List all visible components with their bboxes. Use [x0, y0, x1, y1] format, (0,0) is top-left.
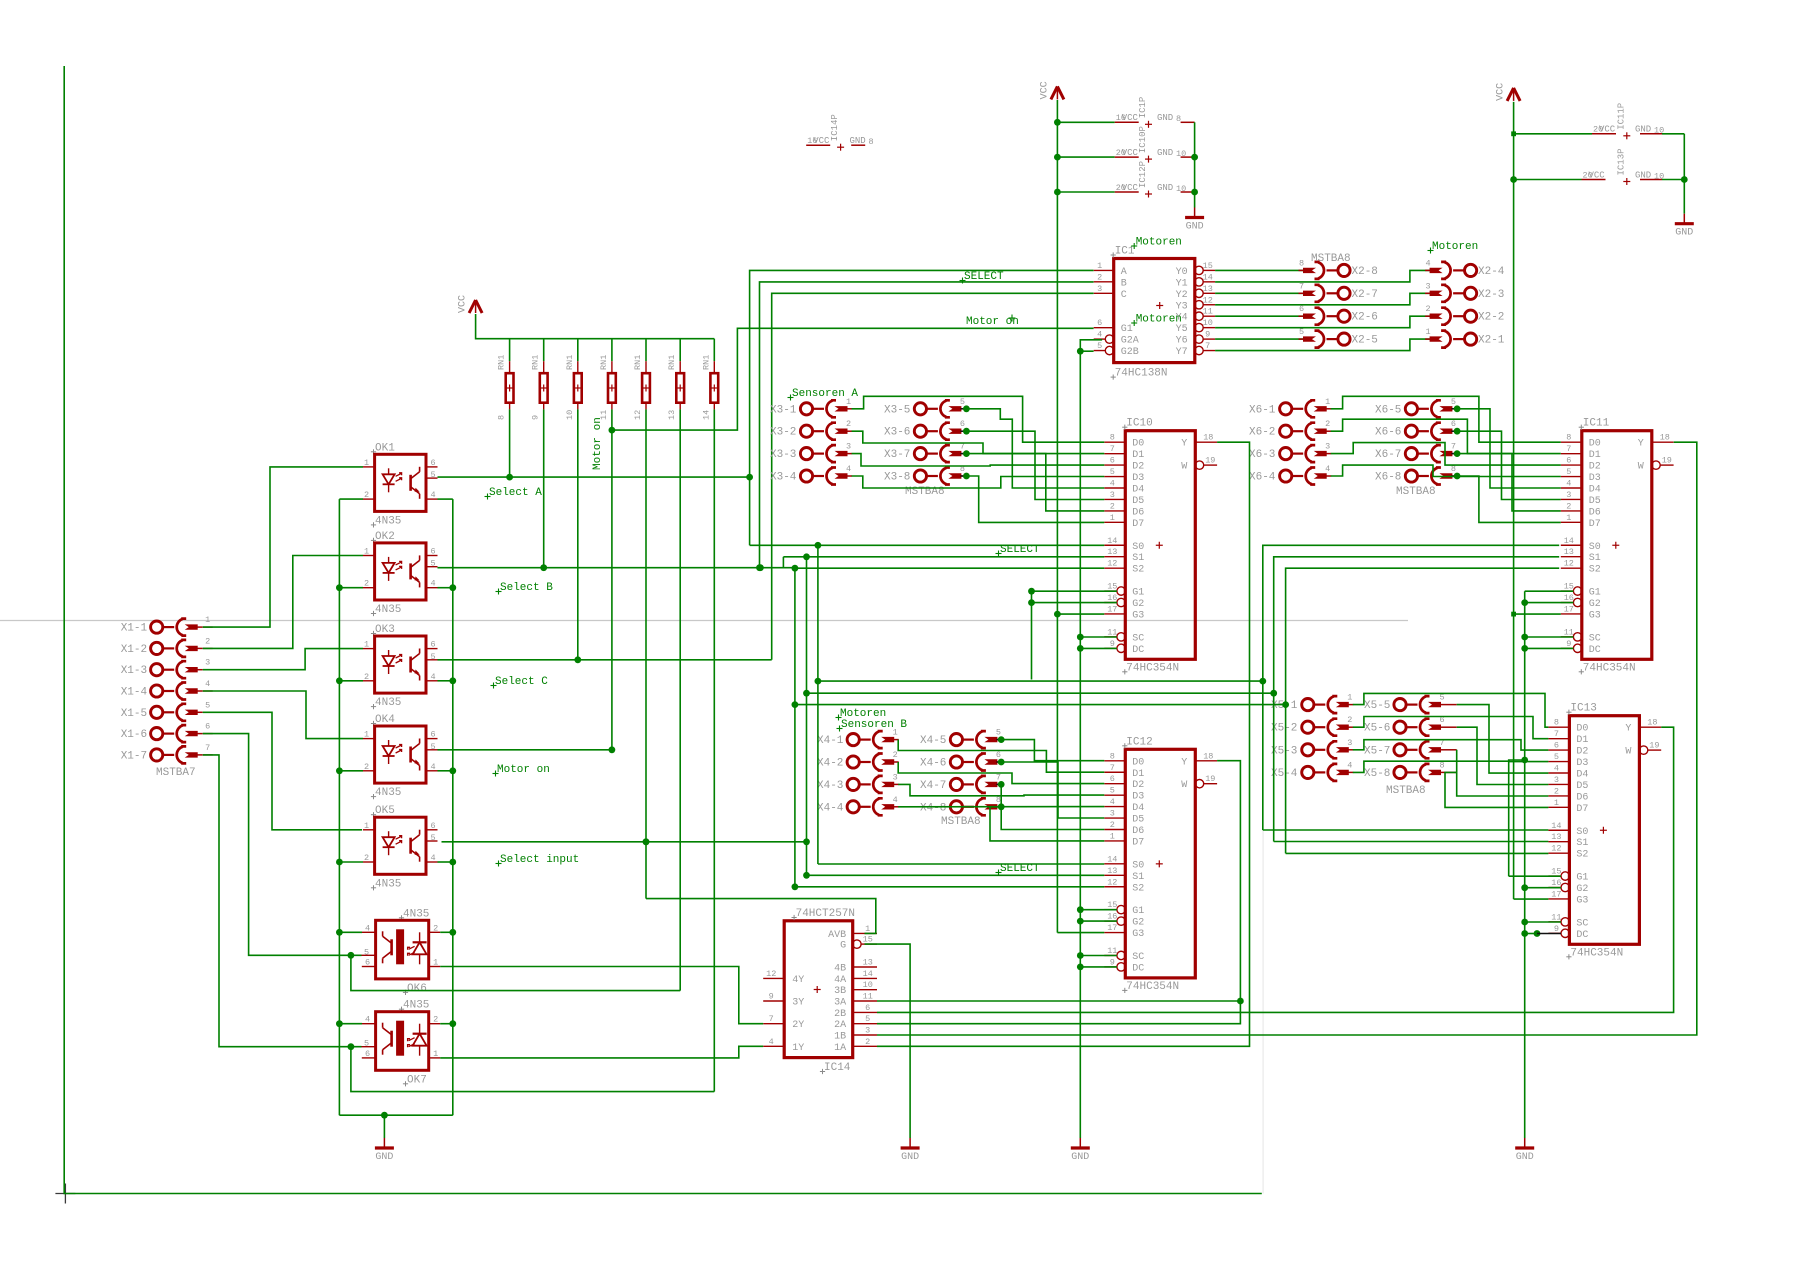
svg-text:G2A: G2A — [1121, 336, 1139, 347]
svg-text:4: 4 — [1566, 479, 1571, 489]
wire — [438, 498, 453, 500]
svg-text:Motor on: Motor on — [592, 417, 604, 470]
svg-text:X2-2: X2-2 — [1478, 312, 1504, 324]
svg-text:9: 9 — [1566, 639, 1571, 649]
svg-text:4: 4 — [1554, 764, 1559, 774]
svg-text:2: 2 — [865, 1037, 870, 1047]
svg-text:7: 7 — [1110, 444, 1115, 454]
wire — [339, 680, 363, 682]
svg-text:6: 6 — [365, 958, 370, 968]
svg-text:2B: 2B — [834, 1009, 846, 1020]
wire — [807, 557, 1560, 693]
svg-text:4: 4 — [430, 579, 435, 589]
svg-text:9: 9 — [1110, 957, 1115, 967]
svg-text:SC: SC — [1589, 633, 1601, 644]
svg-text:9: 9 — [769, 992, 774, 1002]
resistor RN1 element pin 14 — [713, 339, 715, 362]
wire — [1331, 419, 1561, 453]
wire — [1057, 932, 1104, 934]
svg-text:MSTBA8: MSTBA8 — [941, 816, 981, 828]
wire — [1080, 920, 1117, 922]
svg-text:G3: G3 — [1589, 610, 1601, 621]
svg-text:12: 12 — [766, 969, 776, 979]
svg-text:W: W — [1181, 780, 1187, 791]
svg-text:D5: D5 — [1132, 496, 1144, 507]
svg-text:8: 8 — [1566, 433, 1571, 443]
wire — [1215, 315, 1303, 317]
svg-text:3: 3 — [1347, 738, 1352, 748]
svg-text:6: 6 — [1299, 304, 1304, 314]
svg-text:W: W — [1638, 462, 1644, 473]
svg-text:19: 19 — [1662, 456, 1672, 466]
svg-text:IC12P: IC12P — [1138, 161, 1148, 188]
svg-text:VCC: VCC — [1122, 148, 1139, 158]
svg-text:X2-5: X2-5 — [1352, 335, 1378, 347]
svg-text:1: 1 — [1554, 798, 1559, 808]
svg-text:1: 1 — [364, 458, 369, 468]
wire — [1525, 602, 1574, 604]
svg-text:7: 7 — [1299, 281, 1304, 291]
svg-text:74HC354N: 74HC354N — [1583, 662, 1636, 674]
svg-text:X2-3: X2-3 — [1478, 289, 1504, 301]
svg-text:2: 2 — [205, 636, 210, 646]
svg-text:G3: G3 — [1132, 610, 1144, 621]
svg-text:6: 6 — [996, 750, 1001, 760]
svg-text:2: 2 — [1325, 419, 1330, 429]
svg-text:X6-3: X6-3 — [1249, 449, 1275, 461]
IC IC11 74HC354N — [1582, 431, 1652, 660]
ground GND (top left) — [1194, 208, 1196, 218]
svg-text:1: 1 — [364, 821, 369, 831]
svg-text:5: 5 — [1097, 341, 1102, 351]
ground GND (bottom left) — [383, 1138, 385, 1148]
svg-text:X1-6: X1-6 — [121, 729, 147, 741]
svg-text:IC12: IC12 — [1126, 736, 1152, 748]
svg-text:4: 4 — [430, 853, 435, 863]
svg-text:15: 15 — [1564, 582, 1574, 592]
wire — [1262, 681, 1264, 830]
wire — [1057, 613, 1104, 615]
svg-text:4N35: 4N35 — [375, 787, 401, 799]
svg-text:6: 6 — [960, 419, 965, 429]
power pins IC13P — [1514, 179, 1582, 181]
wire — [203, 556, 363, 649]
svg-text:4A: 4A — [834, 975, 846, 986]
resistor RN1 element pin 8 — [509, 339, 511, 362]
svg-text:4: 4 — [1325, 464, 1330, 474]
supply VCC (top right) — [1507, 88, 1520, 101]
svg-text:SELECT: SELECT — [1000, 544, 1040, 556]
svg-text:Y: Y — [1625, 724, 1631, 735]
wire — [1215, 316, 1430, 328]
svg-text:5: 5 — [1451, 397, 1456, 407]
svg-text:SC: SC — [1576, 918, 1588, 929]
svg-text:G3: G3 — [1576, 895, 1588, 906]
svg-text:14: 14 — [1107, 854, 1117, 864]
svg-text:5: 5 — [430, 559, 435, 569]
svg-text:2: 2 — [1554, 786, 1559, 796]
IC IC10 74HC354N — [1125, 431, 1195, 660]
svg-text:10: 10 — [1203, 318, 1213, 328]
wire — [1215, 270, 1430, 282]
wire — [1056, 100, 1058, 614]
svg-text:5: 5 — [1566, 467, 1571, 477]
power pins IC14P — [806, 144, 830, 146]
wire — [1525, 921, 1561, 923]
svg-text:GND: GND — [1516, 1152, 1534, 1163]
svg-text:8: 8 — [1176, 114, 1181, 124]
svg-text:G2: G2 — [1132, 918, 1144, 929]
svg-text:X3-3: X3-3 — [770, 449, 796, 461]
svg-text:13: 13 — [667, 410, 677, 420]
wire Select B — [438, 567, 795, 569]
svg-text:X1-7: X1-7 — [121, 750, 147, 762]
wire — [438, 861, 453, 863]
wire — [339, 1114, 452, 1116]
wire — [351, 1047, 714, 1092]
svg-text:X1-3: X1-3 — [121, 665, 147, 677]
svg-text:1: 1 — [364, 730, 369, 740]
svg-text:VCC: VCC — [1122, 183, 1139, 193]
svg-text:Motoren: Motoren — [1136, 314, 1182, 326]
svg-text:6: 6 — [430, 730, 435, 740]
svg-text:S1: S1 — [1576, 838, 1588, 849]
svg-text:1: 1 — [1110, 831, 1115, 841]
svg-text:3A: 3A — [834, 998, 846, 1009]
svg-text:2: 2 — [1110, 820, 1115, 830]
wire — [795, 568, 1559, 704]
svg-text:X1-1: X1-1 — [121, 623, 148, 635]
svg-text:18: 18 — [1647, 718, 1657, 728]
svg-text:X1-4: X1-4 — [121, 687, 148, 699]
svg-text:12: 12 — [1107, 559, 1117, 569]
svg-text:13: 13 — [1107, 547, 1117, 557]
wire — [438, 770, 453, 772]
svg-text:IC11P: IC11P — [1616, 103, 1626, 130]
power pins IC11P — [1514, 133, 1592, 135]
wire — [1031, 591, 1033, 679]
svg-text:OK4: OK4 — [375, 714, 395, 726]
svg-text:12: 12 — [1551, 844, 1561, 854]
svg-text:G2B: G2B — [1121, 347, 1139, 358]
svg-text:VCC: VCC — [458, 295, 469, 313]
frame row divider — [0, 620, 1408, 622]
svg-text:VCC: VCC — [1122, 113, 1139, 123]
IC IC1 74HC138N — [1114, 259, 1195, 363]
svg-text:6: 6 — [430, 458, 435, 468]
svg-text:X4-3: X4-3 — [817, 780, 843, 792]
svg-text:16: 16 — [1107, 593, 1117, 603]
wire — [1513, 614, 1515, 899]
svg-text:13: 13 — [1551, 832, 1561, 842]
svg-text:5: 5 — [1299, 327, 1304, 337]
svg-text:G2: G2 — [1576, 884, 1588, 895]
svg-text:Motor on: Motor on — [497, 764, 550, 776]
svg-text:14: 14 — [1564, 536, 1574, 546]
wire — [339, 587, 363, 589]
svg-text:Select C: Select C — [495, 676, 548, 688]
svg-text:4: 4 — [430, 490, 435, 500]
svg-text:Y: Y — [1181, 757, 1187, 768]
svg-text:4: 4 — [1425, 258, 1430, 268]
svg-text:SC: SC — [1132, 633, 1144, 644]
svg-text:SELECT: SELECT — [1000, 863, 1040, 875]
svg-text:Y5: Y5 — [1176, 324, 1188, 335]
svg-text:G3: G3 — [1132, 929, 1144, 940]
svg-text:D0: D0 — [1132, 439, 1144, 450]
svg-text:X2-1: X2-1 — [1478, 335, 1505, 347]
svg-text:G1: G1 — [1132, 588, 1144, 599]
wire — [476, 314, 715, 339]
svg-text:GND: GND — [1186, 222, 1204, 233]
resistor RN1 element pin 9 — [543, 339, 545, 362]
wire — [1001, 762, 1104, 818]
wire — [713, 409, 715, 1091]
svg-text:B: B — [1121, 278, 1127, 289]
wire — [1457, 431, 1561, 499]
svg-text:3: 3 — [865, 1026, 870, 1036]
svg-text:D0: D0 — [1132, 757, 1144, 768]
svg-text:12: 12 — [633, 410, 643, 420]
svg-text:4: 4 — [1110, 479, 1115, 489]
svg-text:16: 16 — [1107, 912, 1117, 922]
wire — [1525, 933, 1537, 935]
svg-text:MSTBA8: MSTBA8 — [1311, 253, 1351, 265]
svg-text:5: 5 — [960, 397, 965, 407]
wire — [612, 328, 1094, 430]
svg-text:IC14: IC14 — [824, 1062, 851, 1074]
svg-text:74HC354N: 74HC354N — [1126, 662, 1179, 674]
svg-text:1: 1 — [205, 615, 210, 625]
wire — [1457, 705, 1549, 774]
wire — [966, 409, 1104, 488]
svg-text:D4: D4 — [1132, 803, 1144, 814]
svg-text:15: 15 — [863, 935, 873, 945]
svg-text:4N35: 4N35 — [403, 908, 429, 920]
svg-text:5: 5 — [205, 700, 210, 710]
svg-text:S0: S0 — [1132, 542, 1144, 553]
svg-text:3Y: 3Y — [792, 998, 804, 1009]
svg-text:VCC: VCC — [1496, 83, 1507, 101]
wire — [898, 806, 1104, 808]
svg-text:S1: S1 — [1132, 872, 1144, 883]
svg-text:IC13P: IC13P — [1616, 148, 1626, 175]
svg-text:19: 19 — [1205, 456, 1215, 466]
svg-text:6: 6 — [430, 821, 435, 831]
svg-text:IC1P: IC1P — [1138, 97, 1148, 119]
svg-text:X6-1: X6-1 — [1249, 404, 1276, 416]
svg-text:1: 1 — [1566, 513, 1571, 523]
svg-text:RN1: RN1 — [531, 355, 541, 370]
svg-text:9: 9 — [531, 415, 541, 420]
wire — [1525, 647, 1574, 649]
svg-text:G2: G2 — [1132, 599, 1144, 610]
wire — [1215, 339, 1430, 351]
svg-text:18: 18 — [1203, 751, 1213, 761]
wire — [64, 66, 1262, 1194]
svg-text:S2: S2 — [1589, 565, 1601, 576]
svg-text:GND: GND — [1071, 1152, 1089, 1163]
svg-text:11: 11 — [1551, 912, 1561, 922]
wire — [1331, 396, 1561, 442]
svg-text:17: 17 — [1551, 889, 1561, 899]
wire — [1457, 727, 1549, 784]
svg-text:5: 5 — [1554, 752, 1559, 762]
svg-text:7: 7 — [205, 743, 210, 753]
svg-text:D3: D3 — [1589, 473, 1601, 484]
svg-text:G: G — [840, 941, 846, 952]
wire — [865, 944, 911, 1138]
svg-text:1B: 1B — [834, 1032, 846, 1043]
svg-text:X3-4: X3-4 — [770, 472, 797, 484]
svg-text:4: 4 — [430, 672, 435, 682]
svg-text:X2-7: X2-7 — [1352, 289, 1378, 301]
resistor RN1 element pin 10 — [577, 339, 579, 362]
wire — [966, 431, 1104, 499]
svg-text:D2: D2 — [1576, 747, 1588, 758]
svg-text:D6: D6 — [1132, 826, 1144, 837]
svg-text:3B: 3B — [834, 986, 846, 997]
svg-text:X6-5: X6-5 — [1375, 404, 1401, 416]
svg-text:G1: G1 — [1576, 873, 1588, 884]
svg-text:14: 14 — [1107, 536, 1117, 546]
svg-text:X3-1: X3-1 — [770, 404, 797, 416]
wire — [1525, 636, 1574, 638]
svg-text:X3-7: X3-7 — [884, 449, 910, 461]
svg-text:G1: G1 — [1589, 588, 1601, 599]
svg-text:1: 1 — [1097, 261, 1102, 271]
svg-text:5: 5 — [865, 1014, 870, 1024]
svg-text:X1-5: X1-5 — [121, 708, 147, 720]
svg-text:GND: GND — [1157, 113, 1173, 123]
frame column divider — [1262, 621, 1264, 1194]
svg-text:17: 17 — [1564, 604, 1574, 614]
svg-text:4N35: 4N35 — [375, 878, 401, 890]
svg-text:D4: D4 — [1589, 485, 1601, 496]
svg-text:D7: D7 — [1132, 837, 1144, 848]
svg-text:G2: G2 — [1589, 599, 1601, 610]
svg-text:4: 4 — [1097, 330, 1102, 340]
svg-text:7: 7 — [1110, 763, 1115, 773]
wire — [1353, 761, 1549, 772]
wire — [1513, 102, 1515, 614]
svg-text:DC: DC — [1576, 930, 1588, 941]
svg-text:4: 4 — [365, 1015, 370, 1025]
svg-text:11: 11 — [1564, 627, 1574, 637]
svg-text:MSTBA8: MSTBA8 — [1386, 785, 1426, 797]
wire — [339, 861, 363, 863]
svg-text:3: 3 — [205, 658, 210, 668]
svg-text:D3: D3 — [1132, 473, 1144, 484]
svg-text:74HC354N: 74HC354N — [1126, 981, 1179, 993]
svg-text:X3-2: X3-2 — [770, 427, 796, 439]
wire — [509, 409, 511, 477]
svg-text:1: 1 — [433, 958, 438, 968]
svg-text:Y2: Y2 — [1176, 290, 1188, 301]
svg-text:2: 2 — [1425, 304, 1430, 314]
svg-text:D0: D0 — [1576, 724, 1588, 735]
svg-text:X4-7: X4-7 — [920, 780, 946, 792]
wire — [1215, 269, 1303, 271]
wire — [1215, 293, 1430, 305]
wire — [1032, 602, 1117, 604]
wire Select A — [438, 476, 750, 478]
svg-text:2: 2 — [893, 750, 898, 760]
svg-text:2: 2 — [364, 490, 369, 500]
svg-text:15: 15 — [1551, 867, 1561, 877]
svg-text:S0: S0 — [1589, 542, 1601, 553]
svg-text:X6-4: X6-4 — [1249, 472, 1276, 484]
svg-text:DC: DC — [1589, 645, 1601, 656]
svg-text:D5: D5 — [1576, 781, 1588, 792]
svg-text:3: 3 — [846, 442, 851, 452]
svg-text:D5: D5 — [1132, 815, 1144, 826]
svg-text:18: 18 — [1660, 433, 1670, 443]
svg-text:7: 7 — [1554, 729, 1559, 739]
svg-text:4: 4 — [846, 464, 851, 474]
svg-text:6: 6 — [365, 1049, 370, 1059]
svg-text:W: W — [1181, 462, 1187, 473]
svg-text:X1-2: X1-2 — [121, 644, 147, 656]
svg-text:X5-5: X5-5 — [1364, 700, 1390, 712]
svg-text:2: 2 — [846, 419, 851, 429]
wire — [351, 955, 680, 990]
wire — [795, 567, 1104, 569]
svg-text:1: 1 — [1325, 397, 1330, 407]
wire — [1525, 887, 1561, 889]
svg-text:S2: S2 — [1132, 565, 1144, 576]
svg-text:GND: GND — [1675, 228, 1693, 239]
svg-text:5: 5 — [430, 742, 435, 752]
svg-text:5: 5 — [430, 470, 435, 480]
svg-text:1: 1 — [865, 924, 870, 934]
wire — [440, 931, 453, 933]
svg-text:7: 7 — [996, 772, 1001, 782]
svg-text:1: 1 — [1425, 327, 1430, 337]
wire — [1194, 122, 1196, 207]
svg-text:5: 5 — [430, 652, 435, 662]
svg-text:3: 3 — [1325, 442, 1330, 452]
svg-text:13: 13 — [1203, 284, 1213, 294]
svg-text:IC11: IC11 — [1583, 418, 1610, 430]
svg-text:X6-6: X6-6 — [1375, 427, 1401, 439]
svg-text:5: 5 — [364, 947, 369, 957]
svg-text:D6: D6 — [1132, 507, 1144, 518]
svg-text:4: 4 — [1347, 760, 1352, 770]
wire — [1331, 443, 1561, 466]
wire — [339, 770, 363, 772]
svg-text:5: 5 — [1110, 786, 1115, 796]
svg-text:2: 2 — [364, 579, 369, 589]
svg-text:IC10: IC10 — [1126, 418, 1152, 430]
svg-text:3: 3 — [1566, 490, 1571, 500]
svg-text:RN1: RN1 — [701, 355, 711, 370]
svg-text:15: 15 — [1203, 261, 1213, 271]
svg-text:X3-6: X3-6 — [884, 427, 910, 439]
svg-text:4Y: 4Y — [792, 975, 804, 986]
wire — [783, 556, 1104, 558]
svg-text:G1: G1 — [1132, 906, 1144, 917]
svg-text:1: 1 — [1347, 693, 1352, 703]
svg-text:X5-3: X5-3 — [1271, 745, 1297, 757]
wire IC11 Y to IC14 1B — [877, 442, 1697, 1035]
svg-text:1A: 1A — [834, 1043, 846, 1054]
svg-text:14: 14 — [1203, 272, 1213, 282]
svg-text:16: 16 — [1564, 593, 1574, 603]
wire — [1509, 760, 1525, 876]
svg-text:MSTBA8: MSTBA8 — [1396, 486, 1436, 498]
svg-text:Sensoren B: Sensoren B — [841, 719, 907, 731]
